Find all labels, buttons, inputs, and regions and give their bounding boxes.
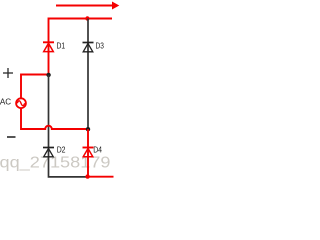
svg-text:AC: AC — [0, 98, 11, 107]
polarity minus sign — [7, 136, 16, 138]
wire: top output rail (red) from D1 top to right — [49, 19, 113, 75]
svg-text:qq_27158179: qq_27158179 — [0, 155, 111, 172]
polarity plus sign — [3, 68, 13, 78]
wire: current-direction arrow line (top) — [56, 5, 113, 7]
wire: black left column from node B down through D2 to bottom rail — [49, 75, 88, 177]
diode D2 (black) — [43, 148, 54, 157]
diode D4 (red, conducting) — [83, 148, 94, 157]
wire: AC positive lead (red) up and right to node B — [21, 75, 49, 99]
svg-text:D2: D2 — [57, 146, 66, 155]
arrowhead of current-direction arrow — [112, 2, 119, 10]
diode D1 (red, conducting) — [43, 42, 54, 51]
wire: black right column from top node down through D3 to node C — [87, 19, 89, 130]
node: junction dot on top rail — [85, 16, 89, 20]
wire: bottom output rail (red) to right — [88, 176, 114, 178]
node C: junction dot right column middle — [86, 127, 90, 131]
AC source circle with sine — [16, 98, 26, 108]
node B: junction dot left column — [46, 73, 50, 77]
diode D3 (black) — [83, 43, 94, 52]
svg-text:D4: D4 — [93, 146, 102, 155]
svg-text:D1: D1 — [57, 42, 66, 51]
wire: AC negative lead (red) down and right with hop over left column — [21, 109, 88, 130]
wire: red right column from node C down through D4 to bottom node — [87, 129, 89, 177]
svg-text:D3: D3 — [96, 42, 105, 51]
node D: junction dot bottom rail — [85, 174, 89, 178]
